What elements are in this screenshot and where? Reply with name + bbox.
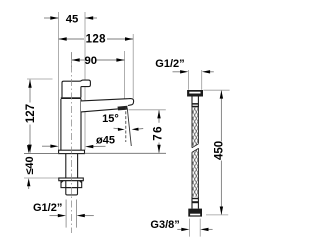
svg-text:ø45: ø45 xyxy=(96,135,115,147)
hose top nut xyxy=(187,90,203,97)
hose top sleeve xyxy=(192,97,199,108)
svg-text:450: 450 xyxy=(214,141,226,160)
shank xyxy=(65,154,67,178)
locknut xyxy=(61,181,82,188)
spout body fill xyxy=(81,99,134,112)
label 15 degrees xyxy=(102,107,143,147)
dimension 76 xyxy=(129,110,166,153)
base flange xyxy=(59,150,85,153)
hose braided lower segment xyxy=(192,148,199,196)
svg-text:76: 76 xyxy=(153,125,165,141)
mounting surface right xyxy=(85,152,166,154)
hose braided upper segment xyxy=(192,108,199,148)
label G3/8 xyxy=(150,219,212,237)
faucet body left edge xyxy=(60,99,62,150)
centerline faucet xyxy=(71,52,73,233)
extension line x124.6 aerator xyxy=(124,51,126,110)
extension line x85 xyxy=(84,12,86,150)
svg-text:G1/2”: G1/2” xyxy=(33,202,62,214)
thread dashed lines G1/2 xyxy=(65,200,67,228)
svg-text:G1/2”: G1/2” xyxy=(155,58,184,70)
spout underside xyxy=(81,109,118,112)
svg-text:≤40: ≤40 xyxy=(24,156,36,174)
hose bottom sleeve xyxy=(192,197,199,209)
washer xyxy=(59,178,84,181)
extension line left x58.5 xyxy=(58,12,60,150)
svg-text:128: 128 xyxy=(86,34,107,46)
label diameter 45 xyxy=(42,135,115,149)
label G1/2 bottom left xyxy=(33,202,94,218)
mounting surface left xyxy=(24,153,59,155)
faucet handle xyxy=(62,80,90,97)
dimension 45 xyxy=(44,13,97,25)
hose nipple block xyxy=(66,188,78,195)
hose bottom nut xyxy=(188,209,202,217)
dimension 90 xyxy=(72,53,125,68)
dimension LE40 xyxy=(24,144,59,189)
label G1/2 hose top xyxy=(155,58,214,90)
faucet handle-body collar xyxy=(61,97,81,99)
dimension 127 xyxy=(25,79,52,153)
dimension 128 xyxy=(59,34,134,46)
svg-text:90: 90 xyxy=(85,55,98,67)
spout top and tip xyxy=(81,99,134,106)
svg-text:127: 127 xyxy=(25,104,37,123)
svg-text:15°: 15° xyxy=(102,113,119,125)
faucet body right edge xyxy=(80,99,82,150)
dimension 450 xyxy=(203,90,229,215)
svg-text:G3/8”: G3/8” xyxy=(150,219,179,231)
svg-text:45: 45 xyxy=(66,13,79,25)
extension line x133 spout tip xyxy=(132,34,134,99)
aerator xyxy=(118,106,128,111)
